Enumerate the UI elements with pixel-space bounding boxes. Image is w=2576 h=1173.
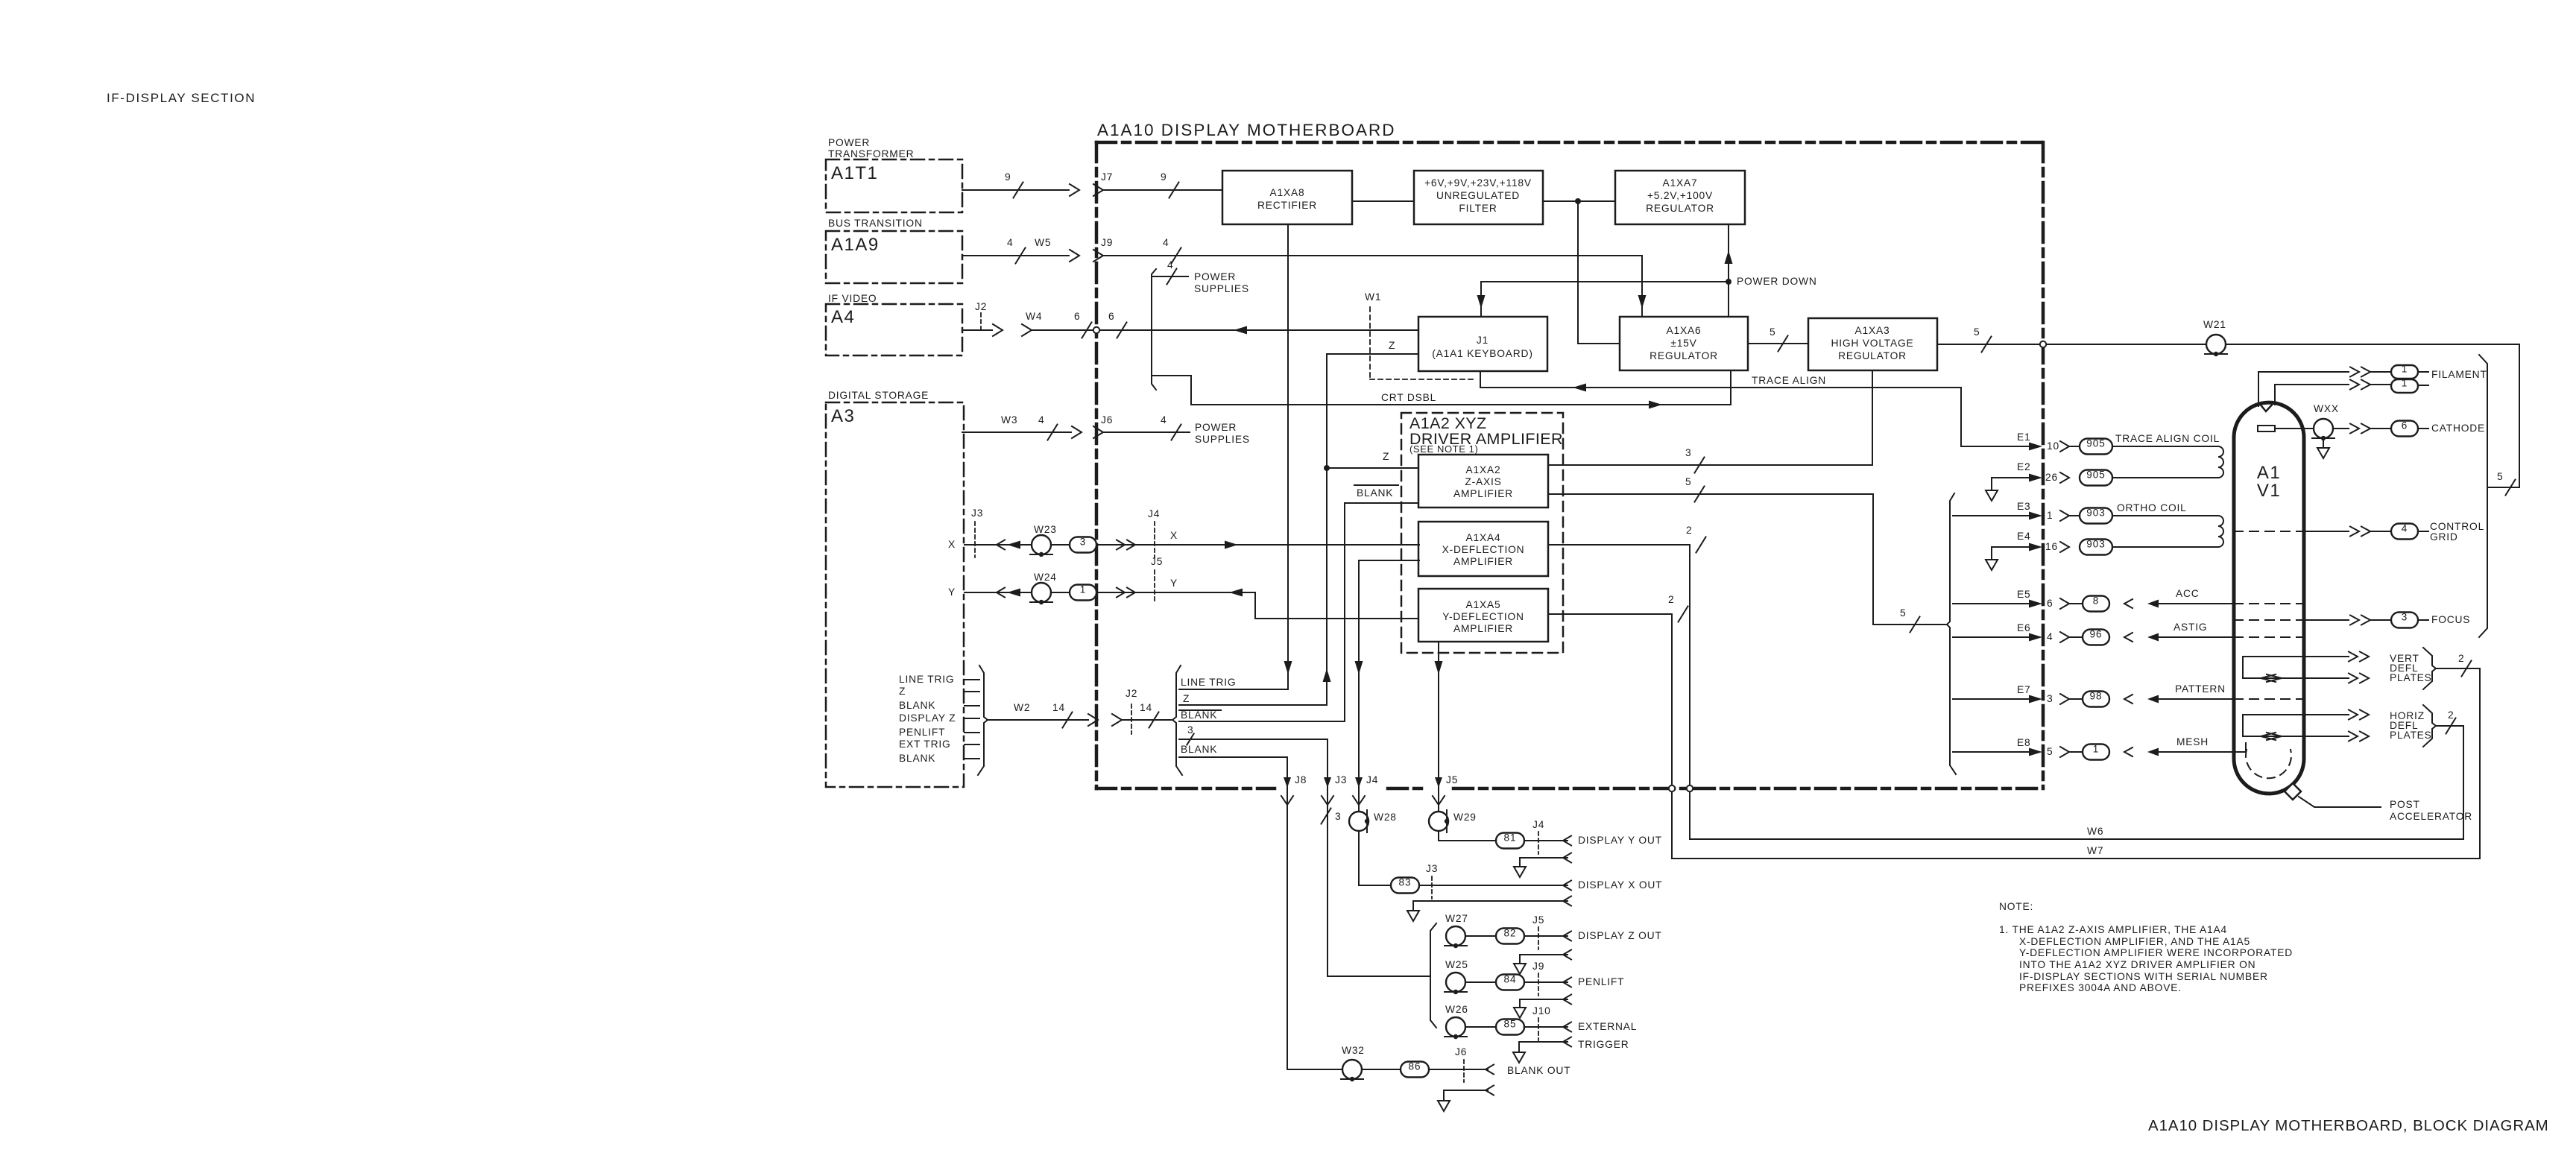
svg-text:MESH: MESH [2176, 736, 2209, 747]
svg-text:J3: J3 [1426, 863, 1438, 874]
svg-text:2: 2 [1686, 525, 1692, 536]
wire Z-axis amp output (5-wide) to E brace [1548, 487, 1947, 633]
block A1A9 bus transition [826, 218, 962, 283]
svg-text:2: 2 [2458, 653, 2464, 664]
svg-text:TRACE ALIGN COIL: TRACE ALIGN COIL [2115, 433, 2220, 444]
connector J4 (dashed) [1148, 508, 1160, 557]
svg-text:1. THE A1A2 Z-AXIS AMPLIFIER,: 1. THE A1A2 Z-AXIS AMPLIFIER, THE A1A4 [1999, 924, 2227, 935]
wire X-deflection output down through J4 to W28 [1355, 560, 1420, 812]
svg-text:E7: E7 [2017, 684, 2030, 695]
net BLANK-bar (motherboard) [1179, 709, 1345, 721]
interconnect 86 oval [1401, 1062, 1429, 1078]
label POST ACCELERATOR [2390, 799, 2472, 822]
svg-text:82: 82 [1503, 928, 1516, 939]
svg-text:V1: V1 [2257, 481, 2281, 501]
svg-text:3: 3 [1335, 811, 1341, 822]
stub filament 1 [2418, 371, 2428, 373]
block J1 (A1A1 keyboard) [1418, 317, 1547, 371]
svg-text:J4: J4 [1532, 819, 1544, 830]
svg-text:2: 2 [2448, 709, 2454, 721]
dashed element line ACC inside CRT [2234, 603, 2304, 604]
dashed element line ASTIG inside CRT [2234, 636, 2304, 638]
svg-text:A1XA7: A1XA7 [1663, 177, 1698, 189]
svg-text:PENLIFT: PENLIFT [1578, 976, 1624, 987]
block A1A2 XYZ driver amplifier (dashed) [1401, 413, 1563, 653]
arrow into J7 [1070, 184, 1079, 196]
wire A3 to J6 (W3, 4-wide) [962, 425, 1071, 440]
connector J4 (border) [1353, 774, 1378, 805]
block A1XA3 high voltage regulator [1808, 318, 1937, 370]
return BLANK OUT shield to chassis [1438, 1086, 1494, 1112]
svg-text:J9: J9 [1101, 237, 1113, 248]
svg-text:DISPLAY Z: DISPLAY Z [899, 712, 956, 724]
svg-text:FILTER: FILTER [1459, 203, 1497, 214]
wire ACC into CRT [2124, 599, 2234, 608]
cable W6 to horizontal deflection plates [1690, 718, 2463, 840]
svg-text:A1A9: A1A9 [831, 235, 880, 255]
svg-text:SUPPLIES: SUPPLIES [1194, 283, 1249, 294]
svg-text:BLANK: BLANK [899, 753, 935, 764]
svg-text:4: 4 [1038, 414, 1044, 426]
svg-text:6: 6 [1074, 311, 1080, 322]
svg-text:14: 14 [1140, 702, 1152, 713]
svg-text:86: 86 [1408, 1061, 1421, 1072]
svg-text:A1XA5: A1XA5 [1466, 599, 1501, 610]
svg-text:CONTROL: CONTROL [2430, 521, 2484, 532]
block A1XA8 rectifier [1222, 171, 1352, 224]
net BLANK (to J8) [1179, 744, 1287, 757]
svg-text:E2: E2 [2017, 461, 2030, 472]
wire DISPLAY Y OUT [1439, 831, 1571, 846]
svg-text:BLANK: BLANK [899, 700, 935, 711]
svg-text:903: 903 [2086, 539, 2106, 550]
svg-text:A1XA3: A1XA3 [1855, 325, 1890, 336]
svg-text:CATHODE: CATHODE [2431, 423, 2485, 434]
interconnect 3 oval (focus) [2391, 613, 2418, 628]
interconnect 3 oval (X) [1070, 537, 1096, 553]
svg-text:1: 1 [2093, 744, 2100, 755]
svg-text:W28: W28 [1374, 812, 1397, 823]
inductor ortho coil [2218, 516, 2223, 547]
cable W25 [1445, 959, 1468, 994]
wire CRT DSBL [1153, 370, 1731, 409]
label VERT DEFL PLATES [2390, 653, 2432, 683]
svg-text:Y-DEFLECTION AMPLIFIER WERE IN: Y-DEFLECTION AMPLIFIER WERE INCORPORATED [2019, 947, 2293, 958]
interconnect 84 oval [1496, 975, 1524, 990]
connector J6 (rear, dashed) [1455, 1046, 1467, 1082]
cable W26 [1445, 1004, 1468, 1039]
wire A1XA8 bottom to LINE TRIG line [1284, 224, 1292, 689]
wire A1T1 to J7 (9-wide bus) [962, 183, 1069, 198]
svg-text:W23: W23 [1034, 524, 1057, 535]
wire J7 to A1XA8 rectifier [1103, 183, 1222, 198]
connector J8 [1281, 774, 1307, 805]
svg-text:PATTERN: PATTERN [2175, 683, 2226, 695]
connector J7 [1093, 171, 1113, 196]
wire E4 chassis arrow [1986, 547, 2029, 570]
cable W7 to vertical deflection plates [1672, 661, 2480, 859]
wire E1 [1961, 441, 2081, 452]
stub control grid [2418, 531, 2428, 532]
interconnect 8 oval (E5) [2083, 596, 2109, 612]
return TRIGGER line to chassis [1513, 1037, 1571, 1063]
return DISPLAY X OUT shield to chassis [1407, 897, 1571, 922]
svg-text:3: 3 [1187, 724, 1193, 736]
svg-text:LINE TRIG: LINE TRIG [899, 674, 954, 685]
cable W1 indicator (dashed) [1365, 291, 1477, 379]
svg-text:1: 1 [2402, 364, 2408, 375]
cable W21 [2203, 319, 2227, 356]
svg-text:FOCUS: FOCUS [2431, 614, 2470, 625]
wire E6 [1953, 632, 2081, 642]
node open circle on border (W4) [1093, 327, 1099, 333]
svg-text:DISPLAY Z OUT: DISPLAY Z OUT [1578, 930, 1662, 941]
wire FILAMENT 1 [2258, 367, 2391, 407]
svg-text:A1A10 DISPLAY MOTHERBOARD: A1A10 DISPLAY MOTHERBOARD [1097, 121, 1396, 139]
svg-text:REGULATOR: REGULATOR [1838, 350, 1907, 361]
svg-text:POWER: POWER [1195, 422, 1237, 433]
stub filament 2 [2418, 385, 2428, 386]
connector J9 [1093, 237, 1113, 262]
svg-text:W24: W24 [1034, 572, 1057, 583]
wire EXTERNAL TRIGGER [1465, 1022, 1571, 1032]
wire junction down to A1XA6 input [1578, 201, 1620, 344]
block A1XA4 X-deflection amplifier [1418, 522, 1548, 576]
svg-text:(A1A1 KEYBOARD): (A1A1 KEYBOARD) [1432, 348, 1532, 359]
interconnect 905 oval (E2) [2080, 470, 2112, 486]
wire BLANK OUT [1287, 1065, 1494, 1075]
wire filter to A1XA7 with junction [1543, 198, 1615, 204]
svg-text:A1XA4: A1XA4 [1466, 532, 1501, 543]
svg-text:A1: A1 [2257, 463, 2281, 483]
svg-text:A1XA8: A1XA8 [1270, 187, 1305, 198]
return PENLIFT shield to chassis [1514, 995, 1571, 1019]
svg-text:J5: J5 [1151, 556, 1163, 567]
svg-text:PREFIXES 3004A AND ABOVE.: PREFIXES 3004A AND ABOVE. [2019, 982, 2182, 993]
svg-text:DISPLAY X OUT: DISPLAY X OUT [1578, 879, 1662, 891]
wire X-deflection output to W6 (2-wide) [1548, 537, 1706, 840]
connector J6 [1093, 414, 1113, 438]
svg-text:905: 905 [2086, 438, 2106, 449]
svg-text:4: 4 [2402, 523, 2408, 534]
A3 signal collector bracket [978, 665, 988, 775]
dashed element line control grid inside CRT [2234, 531, 2304, 532]
interconnect 4 oval (control grid) [2391, 524, 2418, 540]
svg-text:TRANSFORMER: TRANSFORMER [828, 148, 914, 159]
svg-text:A1XA2: A1XA2 [1466, 464, 1501, 475]
wire BLANK net down through J8 to blank out [1287, 757, 1288, 1069]
svg-text:AMPLIFIER: AMPLIFIER [1453, 488, 1513, 499]
svg-text:J1: J1 [1477, 335, 1489, 346]
svg-text:W21: W21 [2203, 319, 2226, 330]
connector J5 (rear, dashed) [1532, 914, 1544, 949]
cable WXX [2312, 403, 2339, 440]
wire TRACE ALIGN (J1 to E1 feed) [1480, 371, 1961, 446]
svg-text:ACC: ACC [2176, 588, 2200, 599]
net 3-wide bus to J3 [1179, 724, 1328, 745]
cable W29 [1429, 810, 1477, 832]
svg-text:4: 4 [2047, 631, 2053, 642]
wire MESH from CRT [2124, 743, 2246, 756]
svg-text:RECTIFIER: RECTIFIER [1257, 200, 1317, 211]
svg-text:4: 4 [1161, 414, 1167, 426]
svg-text:3: 3 [1080, 537, 1087, 548]
wire X from A3 to X-deflection amp [965, 540, 1419, 550]
svg-text:X-DEFLECTION AMPLIFIER, AND TH: X-DEFLECTION AMPLIFIER, AND THE A1A5 [2019, 936, 2250, 947]
svg-text:Z: Z [899, 686, 906, 697]
svg-text:W27: W27 [1445, 913, 1468, 924]
svg-text:BLANK: BLANK [1181, 709, 1217, 721]
cable W4 chevron [1022, 311, 1042, 336]
wire ASTIG into CRT [2124, 633, 2234, 642]
label POWER SUPPLIES (J6) [1195, 422, 1250, 445]
svg-text:BLANK: BLANK [1357, 487, 1393, 499]
brace collecting E-lines [1947, 493, 1956, 774]
svg-text:E6: E6 [2017, 622, 2030, 633]
svg-text:E3: E3 [2017, 501, 2030, 512]
svg-text:J5: J5 [1446, 774, 1458, 785]
svg-text:J4: J4 [1366, 774, 1378, 785]
net LINE TRIG (motherboard) [1179, 677, 1288, 689]
svg-text:X: X [948, 539, 956, 550]
wire POWER DOWN into A1XA6 top [1728, 282, 1729, 317]
svg-text:J4: J4 [1148, 508, 1160, 519]
svg-text:ACCELERATOR: ACCELERATOR [2390, 811, 2472, 822]
wire E7 [1953, 694, 2081, 704]
svg-text:2: 2 [1668, 594, 1674, 605]
wire A4 J2 output [962, 329, 992, 331]
svg-text:9: 9 [1005, 171, 1011, 183]
svg-text:DIGITAL STORAGE: DIGITAL STORAGE [828, 390, 929, 401]
cable W24 [1030, 572, 1057, 604]
wire A1XA3 right output (5-wide) to CRT feed [1937, 337, 2519, 496]
wire W4 to J1 (6-wide) [1032, 323, 1418, 338]
svg-text:TRACE ALIGN: TRACE ALIGN [1752, 375, 1826, 386]
svg-text:1: 1 [1080, 584, 1087, 595]
dashed element line PATTERN inside CRT [2234, 698, 2304, 700]
fanout bracket right of J2 [1172, 665, 1182, 775]
connector chevron after border (W2) [1112, 714, 1122, 726]
arrow E4 [2029, 542, 2069, 552]
wire E5 [1953, 598, 2081, 609]
interconnect 903 oval (E3) [2080, 508, 2112, 524]
svg-text:POWER: POWER [1194, 271, 1236, 282]
connector J3 (border) [1322, 774, 1347, 805]
svg-text:EXT TRIG: EXT TRIG [899, 739, 951, 750]
wire DISPLAY X OUT [1359, 831, 1571, 891]
svg-text:Z: Z [1383, 451, 1389, 462]
wire CONTROL GRID [2304, 527, 2391, 537]
label CONTROL GRID [2430, 521, 2484, 543]
svg-text:A4: A4 [831, 307, 855, 327]
label HORIZ DEFL PLATES [2390, 710, 2432, 741]
svg-text:J2: J2 [975, 301, 987, 312]
svg-text:J9: J9 [1532, 961, 1544, 972]
wire 3-wide bus down through J3 to W25-27 brace [1321, 739, 1430, 976]
svg-text:ORTHO COIL: ORTHO COIL [2117, 502, 2187, 513]
svg-text:Y: Y [1170, 578, 1178, 589]
wire J6 to power supplies [1103, 425, 1190, 440]
A3 signal list labels [899, 674, 956, 764]
arrow into J9 [1070, 250, 1079, 262]
svg-text:AMPLIFIER: AMPLIFIER [1453, 623, 1513, 634]
svg-text:REGULATOR: REGULATOR [1650, 350, 1718, 361]
svg-text:A1A10 DISPLAY MOTHERBOARD, BLO: A1A10 DISPLAY MOTHERBOARD, BLOCK DIAGRAM [2148, 1117, 2549, 1134]
svg-text:W7: W7 [2087, 845, 2103, 856]
power supplies tap bracket (upper) [1152, 269, 1188, 391]
svg-text:J6: J6 [1101, 414, 1113, 426]
block A3 digital storage [826, 390, 964, 787]
block A4 IF video [826, 293, 962, 355]
svg-text:W5: W5 [1035, 237, 1051, 248]
arrow on W4 cable [993, 324, 1003, 336]
arrow into J6 [1072, 426, 1082, 438]
CRT screen dashed arc [2246, 750, 2291, 778]
wire J9 to A1XA6 top [1103, 248, 1647, 317]
svg-text:IF-DISPLAY SECTIONS WITH SERIA: IF-DISPLAY SECTIONS WITH SERIAL NUMBER [2019, 971, 2268, 982]
block unregulated filter [1414, 171, 1543, 224]
svg-text:A1T1: A1T1 [831, 163, 878, 183]
vertical deflection plates wires [2243, 652, 2369, 683]
interconnect 82 oval [1496, 929, 1524, 944]
wire E3 [1953, 510, 2081, 521]
wire E2 chassis arrow [1986, 478, 2029, 501]
svg-text:6: 6 [1108, 311, 1114, 322]
brace for W27 W25 W26 cables [1430, 923, 1436, 1028]
interconnect 6 oval (cathode) [2391, 421, 2418, 437]
svg-text:Z-AXIS: Z-AXIS [1465, 476, 1501, 487]
wire W2 cable (14-wide) [988, 712, 1098, 728]
interconnect 96 oval (E6) [2083, 630, 2109, 645]
block A1XA2 Z-axis amplifier [1418, 455, 1548, 508]
interconnect 98 oval (E7) [2083, 692, 2109, 707]
svg-text:W32: W32 [1342, 1045, 1365, 1056]
svg-text:X-DEFLECTION: X-DEFLECTION [1442, 544, 1525, 555]
wire E4 to coil [2112, 546, 2218, 548]
interconnect 1 oval (filament 2) [2391, 379, 2418, 393]
svg-text:J3: J3 [971, 508, 983, 519]
svg-text:+5.2V,+100V: +5.2V,+100V [1647, 190, 1713, 201]
svg-text:BLANK: BLANK [1181, 744, 1217, 755]
svg-text:±15V: ±15V [1670, 338, 1696, 349]
svg-text:+6V,+9V,+23V,+118V: +6V,+9V,+23V,+118V [1424, 177, 1532, 189]
svg-text:TRIGGER: TRIGGER [1578, 1039, 1629, 1050]
svg-text:EXTERNAL: EXTERNAL [1578, 1021, 1637, 1032]
interconnect 905 oval (E1) [2080, 439, 2112, 455]
interconnect 83 oval [1391, 878, 1419, 894]
block A1T1 power transformer [826, 137, 962, 212]
wire BLANK input net [1345, 503, 1418, 721]
svg-text:PLATES: PLATES [2390, 672, 2432, 683]
svg-text:26: 26 [2045, 472, 2058, 483]
svg-text:REGULATOR: REGULATOR [1646, 203, 1714, 214]
connector J9 (rear, dashed) [1532, 961, 1544, 996]
svg-text:Z: Z [1183, 693, 1190, 704]
svg-text:HIGH VOLTAGE: HIGH VOLTAGE [1831, 338, 1913, 349]
block A1XA7 regulator [1615, 171, 1745, 224]
stub cathode [2418, 428, 2428, 429]
svg-text:SUPPLIES: SUPPLIES [1195, 434, 1250, 445]
arrows X into J4 [1117, 540, 1135, 550]
svg-text:J2: J2 [1126, 688, 1137, 699]
svg-text:DISPLAY Y OUT: DISPLAY Y OUT [1578, 835, 1662, 846]
motherboard boundary A1A10 (dash-dot border) [1096, 142, 2043, 788]
svg-text:BLANK OUT: BLANK OUT [1507, 1065, 1570, 1076]
svg-text:POWER: POWER [828, 137, 870, 148]
chassis ground below WXX [2317, 440, 2329, 458]
svg-text:INTO THE A1A2 XYZ DRIVER AMPLI: INTO THE A1A2 XYZ DRIVER AMPLIFIER ON [2019, 959, 2255, 970]
interconnect 1 oval (filament 1) [2391, 365, 2418, 379]
svg-text:3: 3 [2047, 693, 2053, 704]
horizontal deflection plates wires [2243, 710, 2369, 742]
svg-text:J5: J5 [1532, 914, 1544, 926]
svg-text:5: 5 [1974, 326, 1980, 338]
svg-text:ASTIG: ASTIG [2173, 622, 2207, 633]
svg-text:1: 1 [2402, 378, 2408, 389]
svg-text:W6: W6 [2087, 826, 2103, 837]
CRT tube A1 V1 envelope [2234, 402, 2304, 794]
svg-text:LINE TRIG: LINE TRIG [1181, 677, 1236, 688]
arrows Y into J5 [1117, 588, 1135, 598]
node open circle on border (X out) [1687, 785, 1693, 791]
svg-text:A3: A3 [831, 406, 855, 426]
svg-text:84: 84 [1503, 974, 1516, 985]
svg-text:4: 4 [1007, 237, 1013, 248]
svg-text:3: 3 [2402, 612, 2408, 623]
wire J2 to fanout bracket [1122, 712, 1171, 728]
svg-text:PLATES: PLATES [2390, 730, 2432, 741]
wire A1XA6 to A1XA3 (5-wide) [1748, 336, 1808, 352]
svg-text:POST: POST [2390, 799, 2420, 810]
CRT cathode electrode [2258, 426, 2275, 431]
svg-text:IF-DISPLAY SECTION: IF-DISPLAY SECTION [107, 91, 256, 105]
svg-text:10: 10 [2047, 440, 2059, 452]
svg-text:E5: E5 [2017, 589, 2030, 600]
svg-text:J6: J6 [1455, 1046, 1467, 1057]
wire POWER DOWN net [1477, 279, 1732, 317]
svg-text:Y-DEFLECTION: Y-DEFLECTION [1442, 611, 1524, 622]
svg-text:W1: W1 [1365, 291, 1381, 303]
wire Y-deflection output to W7 (2-wide) [1548, 607, 1688, 859]
svg-text:WXX: WXX [2314, 403, 2339, 414]
svg-text:W2: W2 [1014, 702, 1030, 713]
connector J2 of A4 (dashed) [975, 301, 987, 330]
svg-text:BUS TRANSITION: BUS TRANSITION [828, 218, 923, 229]
connector J10 (rear, dashed) [1532, 1005, 1551, 1040]
svg-text:FILAMENT: FILAMENT [2431, 369, 2487, 380]
svg-text:E4: E4 [2017, 531, 2030, 542]
svg-text:J8: J8 [1295, 774, 1307, 785]
svg-text:8: 8 [2093, 595, 2100, 607]
arrow E2 [2029, 472, 2069, 483]
wire Z input net (J2 to J1 and Z-axis amp) [1323, 354, 1419, 705]
wire FOCUS [2304, 616, 2391, 625]
interconnect 1 oval (E8) [2083, 744, 2109, 760]
interconnect 85 oval [1496, 1019, 1524, 1035]
svg-text:5: 5 [1685, 476, 1691, 487]
svg-text:96: 96 [2089, 629, 2102, 640]
wire E2 to coil [2112, 477, 2218, 478]
svg-text:83: 83 [1398, 877, 1411, 888]
connector J5 (dashed) [1151, 556, 1163, 604]
svg-text:6: 6 [2047, 598, 2053, 609]
cable W23 [1030, 524, 1057, 557]
wire A1A9 to J9 (4-wide bus W5) [962, 248, 1069, 264]
node open circle on border (Y) [1669, 785, 1675, 791]
svg-text:IF VIDEO: IF VIDEO [828, 293, 877, 304]
wire E8 [1953, 747, 2081, 757]
wire A1XA3 bottom to Z-axis amp (3-wide) [1548, 370, 1872, 473]
